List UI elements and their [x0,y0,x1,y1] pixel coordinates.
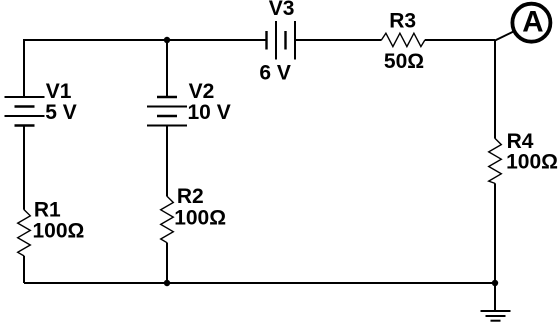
wire left vertical bottom [23,256,25,283]
wire right vertical upper [494,40,496,139]
label 100Ω R4 [506,151,558,174]
wire middle vertical middle [166,126,168,197]
label V2 [189,80,215,103]
label 5 V [45,101,77,124]
svg-text:R1: R1 [34,198,61,221]
svg-text:V2: V2 [189,80,215,103]
svg-text:10 V: 10 V [188,101,231,124]
label R3 [389,9,416,32]
svg-text:V3: V3 [269,0,295,20]
svg-text:100Ω: 100Ω [506,151,558,174]
battery V3 [267,21,296,60]
svg-text:100Ω: 100Ω [174,207,226,230]
wire top between R3 and junction [425,39,495,41]
resistor R3 [381,33,425,46]
svg-text:R4: R4 [507,130,534,153]
wire left vertical middle [23,126,25,210]
wire middle vertical top [166,40,168,97]
ground [481,283,511,321]
label 100Ω R1 [33,220,85,243]
wire left vertical top [23,40,25,97]
resistor R2 [161,196,174,242]
junction dot bottom-middle [164,280,170,286]
svg-text:100Ω: 100Ω [33,220,85,243]
wire top-left segment with left corner [24,40,267,97]
label 6 V [259,61,291,84]
label 100Ω R2 [174,207,226,230]
svg-text:R2: R2 [177,185,204,208]
wire bottom [24,282,495,284]
wire right vertical lower [494,183,496,283]
label V1 [46,80,72,103]
resistor R1 [18,210,31,256]
label V3 [269,0,295,20]
label 10 V [188,101,231,124]
svg-text:5 V: 5 V [45,101,77,124]
wire middle vertical bottom [166,243,168,283]
svg-text:A: A [522,6,543,39]
junction dot right-bottom [492,280,498,286]
label R1 [34,198,61,221]
label R4 [507,130,534,153]
svg-text:V1: V1 [46,80,72,103]
battery V1 [5,97,45,126]
svg-text:50Ω: 50Ω [384,50,424,73]
battery V2 [147,97,187,126]
resistor R4 [489,138,502,183]
label 50Ω [384,50,424,73]
svg-text:R3: R3 [389,9,416,32]
junction dot top-middle [164,37,170,43]
wire diagonal to ammeter [495,32,514,41]
svg-text:6 V: 6 V [259,61,291,84]
wire top between V3 and R3 [295,39,382,41]
label R2 [177,185,204,208]
ammeter A [512,4,550,42]
